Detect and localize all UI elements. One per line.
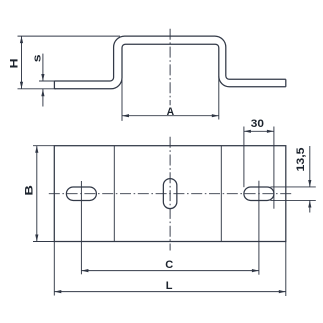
left slot center line / C extension	[80, 181, 82, 274]
plate outline	[54, 146, 285, 242]
hat profile inner surface	[54, 44, 285, 89]
left fold line	[113, 146, 115, 242]
vertical centerline	[169, 137, 171, 251]
dimension A	[121, 78, 123, 121]
left end cap	[53, 81, 55, 89]
dimension 30	[243, 127, 245, 188]
flange top extension line to s dimension	[39, 80, 56, 82]
center slot	[163, 179, 177, 209]
vertical centerline of hat	[169, 29, 171, 106]
dimension L	[53, 242, 55, 296]
right fold line	[220, 146, 222, 242]
svg-text:s: s	[32, 54, 44, 62]
dimension H	[21, 36, 23, 89]
right end cap	[285, 79, 287, 87]
svg-text:H: H	[9, 58, 21, 68]
svg-text:A: A	[167, 106, 175, 118]
svg-text:B: B	[23, 185, 35, 196]
dimension 13,5	[270, 186, 315, 188]
left slot	[66, 187, 96, 201]
hat profile outer surface	[54, 36, 285, 81]
right slot center line / C extension	[258, 181, 260, 275]
right slot	[244, 187, 274, 201]
dimension C	[81, 270, 259, 272]
top extension line to H dimension	[18, 35, 121, 37]
dimension s	[42, 54, 44, 81]
svg-text:C: C	[165, 259, 173, 271]
horizontal centerline	[49, 193, 292, 195]
svg-text:30: 30	[251, 118, 264, 130]
svg-text:13,5: 13,5	[295, 148, 307, 172]
flange bottom extension line to H dimension	[18, 88, 57, 90]
dimension B	[33, 145, 54, 147]
svg-text:L: L	[166, 280, 173, 292]
